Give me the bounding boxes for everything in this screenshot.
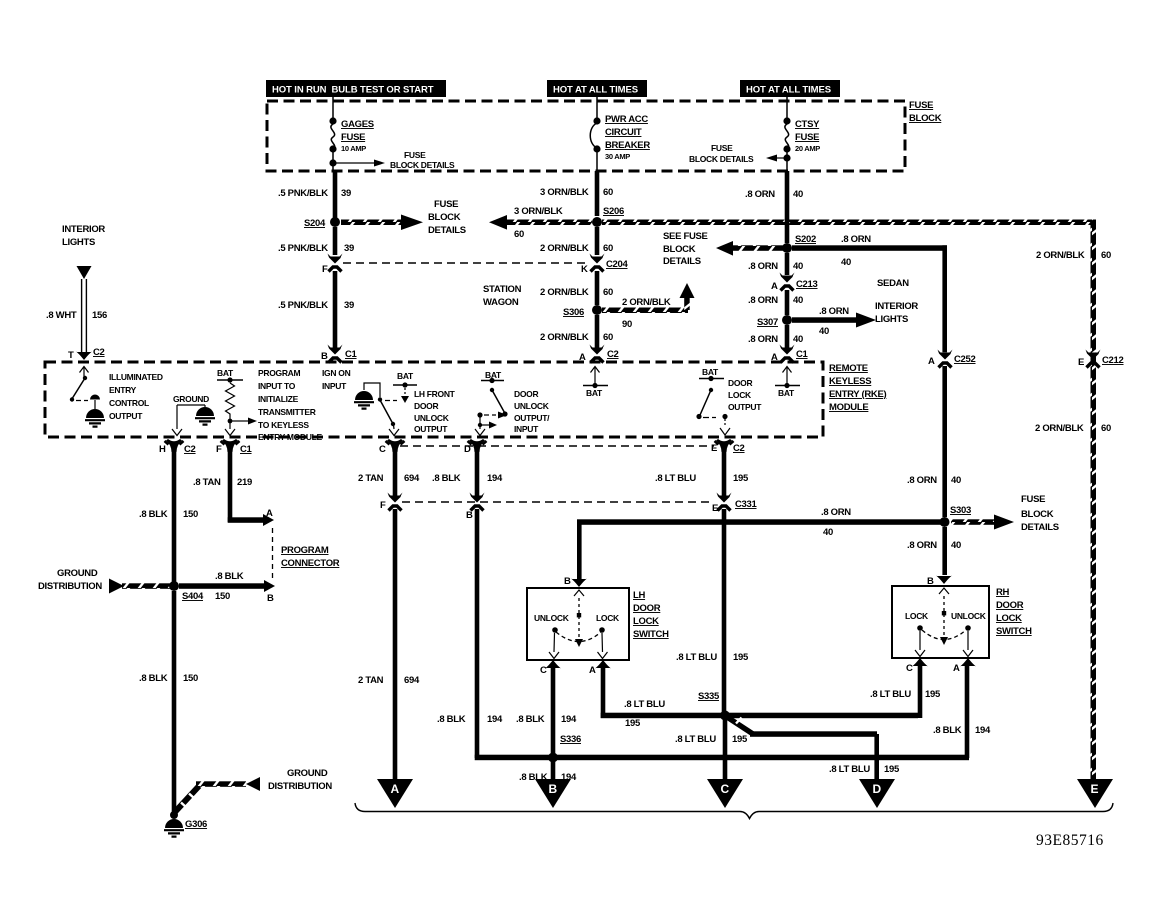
hatched wire right vertical run to terminal E bbox=[1091, 220, 1097, 780]
lh switch pin A bbox=[589, 660, 611, 676]
fuse block label bbox=[909, 100, 942, 124]
door unlock output/input switch bbox=[475, 370, 508, 436]
svg-text:BLOCK: BLOCK bbox=[1021, 509, 1054, 520]
svg-text:HOT AT ALL TIMES: HOT AT ALL TIMES bbox=[746, 85, 831, 96]
svg-text:BLOCK: BLOCK bbox=[663, 244, 696, 255]
svg-text:150: 150 bbox=[215, 591, 230, 602]
svg-text:39: 39 bbox=[344, 243, 354, 254]
label DOOR UNLOCK OUTPUT/ INPUT bbox=[514, 389, 550, 434]
hatched diagonal S335 to terminal D run bbox=[727, 717, 900, 779]
svg-text:C204: C204 bbox=[606, 259, 629, 270]
circuit breaker PWR ACC 30 AMP bbox=[590, 114, 650, 171]
wire .8 LT BLU 195 pin E to connector E C331 bbox=[655, 450, 749, 496]
wire from HOT AT ALL TIMES feed to circuit breaker bbox=[596, 96, 598, 118]
svg-text:2 ORN/BLK: 2 ORN/BLK bbox=[540, 287, 589, 298]
label DOOR LOCK OUTPUT bbox=[728, 378, 762, 412]
svg-text:2 ORN/BLK: 2 ORN/BLK bbox=[622, 297, 671, 308]
svg-text:B: B bbox=[466, 510, 473, 521]
label RH DOOR LOCK SWITCH bbox=[996, 587, 1032, 637]
connector K C204 bbox=[581, 254, 629, 276]
svg-text:LOCK: LOCK bbox=[728, 390, 752, 400]
svg-text:60: 60 bbox=[514, 229, 524, 240]
ctsy fuse tap to fuse block details bbox=[689, 143, 791, 164]
svg-text:.8 ORN: .8 ORN bbox=[841, 234, 871, 245]
svg-text:DETAILS: DETAILS bbox=[663, 256, 701, 267]
wire .8 BLK 150 pin H to S404 bbox=[139, 450, 198, 584]
svg-text:TRANSMITTER: TRANSMITTER bbox=[258, 407, 316, 417]
wire .8 BLK 150 S404 to G306 bbox=[139, 591, 198, 815]
svg-text:39: 39 bbox=[344, 300, 354, 311]
svg-text:A: A bbox=[771, 281, 778, 292]
RKE module dashed box bbox=[45, 362, 823, 437]
wire from HOT AT ALL TIMES feed to ctsy fuse bbox=[786, 96, 788, 118]
wire .8 BLK 194 S336 run to rh switch pin A bbox=[553, 666, 991, 760]
svg-text:BAT: BAT bbox=[217, 368, 234, 378]
wire .8 ORN 40 C252 to S303 bbox=[907, 366, 961, 517]
wire .8 ORN 40 connector A to S307 bbox=[748, 290, 803, 315]
node S303 bbox=[940, 505, 972, 527]
svg-text:C2: C2 bbox=[93, 347, 105, 358]
ground output to pin H bbox=[172, 394, 215, 436]
connector B on .8 BLK wire bbox=[466, 493, 485, 522]
svg-text:MODULE: MODULE bbox=[829, 402, 868, 413]
svg-text:CTSY: CTSY bbox=[795, 119, 820, 130]
svg-text:C: C bbox=[540, 665, 547, 676]
svg-text:FUSE: FUSE bbox=[795, 132, 819, 143]
wire 2 TAN 694 connector F to terminal A bbox=[358, 509, 420, 779]
ground G306 bbox=[164, 811, 207, 837]
svg-text:GROUND: GROUND bbox=[287, 768, 328, 779]
svg-text:39: 39 bbox=[341, 188, 351, 199]
svg-text:C212: C212 bbox=[1102, 355, 1124, 366]
RH door lock switch box bbox=[892, 586, 989, 658]
svg-text:H: H bbox=[159, 444, 166, 455]
label STATION WAGON bbox=[483, 284, 522, 308]
label LH FRONT DOOR UNLOCK OUTPUT bbox=[414, 389, 456, 434]
node S335 bbox=[698, 691, 730, 721]
svg-text:694: 694 bbox=[404, 473, 420, 484]
svg-text:CONTROL: CONTROL bbox=[109, 398, 149, 408]
svg-text:DISTRIBUTION: DISTRIBUTION bbox=[38, 581, 102, 592]
label REMOTE KEYLESS ENTRY (RKE) MODULE bbox=[829, 363, 887, 413]
svg-text:40: 40 bbox=[819, 326, 829, 337]
node S204 bbox=[304, 217, 340, 229]
svg-text:F: F bbox=[216, 444, 222, 455]
svg-text:FUSE: FUSE bbox=[341, 132, 365, 143]
terminal D bbox=[859, 779, 895, 808]
wire 2 ORN/BLK 60 S306 to RKE module pin A bbox=[540, 315, 613, 348]
svg-text:F: F bbox=[322, 264, 328, 275]
wire .8 ORN 40 S303 to RH door lock switch pin B bbox=[907, 527, 961, 575]
connector F on 2 TAN wire bbox=[380, 493, 403, 512]
svg-text:A: A bbox=[266, 508, 273, 519]
svg-text:BLOCK DETAILS: BLOCK DETAILS bbox=[390, 160, 455, 170]
svg-text:UNLOCK: UNLOCK bbox=[951, 611, 987, 621]
wire .5 PNK/BLK 39 connector F to RKE module pin B bbox=[278, 271, 354, 348]
wire .8 TAN 219 pin F to program connector pin A bbox=[193, 450, 274, 526]
pin D at module bottom bbox=[464, 439, 487, 455]
wire 2 ORN/BLK 60 connector K to S306 bbox=[540, 271, 613, 305]
svg-text:195: 195 bbox=[733, 652, 749, 663]
bat feed at pin A C2 bbox=[583, 367, 608, 399]
hatched branch to ground distribution (lower) bbox=[174, 777, 260, 813]
svg-text:.5 PNK/BLK: .5 PNK/BLK bbox=[278, 243, 328, 254]
svg-text:DOOR: DOOR bbox=[996, 600, 1024, 611]
svg-text:ENTRY MODULE: ENTRY MODULE bbox=[258, 432, 323, 442]
svg-text:60: 60 bbox=[603, 332, 613, 343]
svg-text:194: 194 bbox=[487, 714, 503, 725]
svg-text:195: 195 bbox=[884, 764, 900, 775]
svg-text:B: B bbox=[549, 782, 558, 796]
wire .8 LT BLU 195 S335 to rh door lock switch pin C bbox=[728, 666, 941, 718]
svg-text:.8 LT BLU: .8 LT BLU bbox=[675, 734, 716, 745]
wire .8 LT BLU 195 connector E to S335 bbox=[676, 509, 749, 712]
pin B C1 at RKE module top bbox=[321, 345, 358, 363]
svg-text:.8 BLK: .8 BLK bbox=[215, 571, 244, 582]
svg-text:B: B bbox=[267, 593, 274, 604]
svg-text:.8 ORN: .8 ORN bbox=[907, 475, 937, 486]
svg-text:DETAILS: DETAILS bbox=[428, 225, 466, 236]
terminal B bbox=[535, 779, 571, 808]
illuminated entry control output switch bbox=[70, 367, 105, 427]
svg-text:C1: C1 bbox=[796, 349, 809, 360]
svg-text:S303: S303 bbox=[950, 505, 971, 516]
wire .8 LT BLU 195 lh pin A to S335 bbox=[601, 666, 723, 729]
lh door lock switch pin B bbox=[564, 576, 587, 587]
node S202 bbox=[782, 234, 816, 253]
svg-text:3 ORN/BLK: 3 ORN/BLK bbox=[514, 206, 563, 217]
svg-text:C2: C2 bbox=[607, 349, 619, 360]
svg-text:PROGRAM: PROGRAM bbox=[281, 545, 329, 556]
svg-text:.8 LT BLU: .8 LT BLU bbox=[655, 473, 696, 484]
svg-text:BAT: BAT bbox=[702, 367, 719, 377]
svg-text:2 ORN/BLK: 2 ORN/BLK bbox=[540, 243, 589, 254]
node S404 bbox=[169, 581, 204, 602]
svg-text:2 ORN/BLK: 2 ORN/BLK bbox=[1036, 250, 1085, 261]
svg-text:LH: LH bbox=[633, 590, 646, 601]
svg-text:GROUND: GROUND bbox=[173, 394, 209, 404]
svg-text:CONNECTOR: CONNECTOR bbox=[281, 558, 340, 569]
svg-text:2 ORN/BLK: 2 ORN/BLK bbox=[1035, 423, 1084, 434]
svg-text:40: 40 bbox=[793, 189, 803, 200]
svg-text:S336: S336 bbox=[560, 734, 581, 745]
wire .8 WHT 156 interior lights to T C2 (double line) bbox=[46, 279, 107, 353]
svg-text:10 AMP: 10 AMP bbox=[341, 144, 366, 153]
svg-text:194: 194 bbox=[561, 714, 577, 725]
svg-text:C252: C252 bbox=[954, 354, 976, 365]
svg-text:195: 195 bbox=[925, 689, 941, 700]
svg-text:REMOTE: REMOTE bbox=[829, 363, 868, 374]
svg-text:.5 PNK/BLK: .5 PNK/BLK bbox=[278, 300, 328, 311]
connector A C213 bbox=[771, 273, 818, 293]
fuse CTSY 20 AMP bbox=[783, 117, 820, 171]
connector F (C204 line) on PNK/BLK wire bbox=[322, 254, 343, 276]
svg-text:UNLOCK: UNLOCK bbox=[514, 401, 550, 411]
node S307 bbox=[757, 315, 792, 328]
svg-text:LOCK: LOCK bbox=[596, 613, 620, 623]
wire .8 ORN 40 branch S202 to sedan run (right then down) bbox=[792, 234, 947, 352]
label SEE FUSE BLOCK DETAILS bbox=[663, 231, 708, 267]
gages fuse tap to fuse block details bbox=[329, 150, 455, 170]
svg-text:2 TAN: 2 TAN bbox=[358, 675, 384, 686]
svg-text:195: 195 bbox=[625, 718, 641, 729]
feed label HOT IN RUN BULB TEST OR START bbox=[266, 80, 446, 97]
wire 2 TAN 694 pin C to connector F bbox=[358, 450, 420, 496]
pin C at module bottom bbox=[379, 439, 405, 455]
label GROUND DISTRIBUTION (upper) bbox=[38, 568, 102, 592]
svg-text:INPUT: INPUT bbox=[514, 424, 539, 434]
svg-text:.8 TAN: .8 TAN bbox=[193, 477, 221, 488]
rh switch pin C bbox=[906, 658, 928, 674]
svg-text:C: C bbox=[721, 782, 730, 796]
connector E C331 bbox=[712, 493, 758, 515]
svg-text:B: B bbox=[564, 576, 571, 587]
svg-text:.5 PNK/BLK: .5 PNK/BLK bbox=[278, 188, 328, 199]
wire 3 ORN/BLK 60 breaker to S206 bbox=[540, 171, 613, 216]
wire .8 BLK 194 pin D to connector B bbox=[432, 450, 503, 496]
svg-text:194: 194 bbox=[487, 473, 503, 484]
svg-text:A: A bbox=[589, 665, 596, 676]
svg-text:BLOCK DETAILS: BLOCK DETAILS bbox=[689, 154, 754, 164]
svg-text:E: E bbox=[1091, 782, 1099, 796]
svg-text:BLOCK: BLOCK bbox=[428, 212, 461, 223]
pin A C2 at RKE module top bbox=[579, 345, 619, 364]
pin H C2 at module bottom bbox=[159, 439, 196, 455]
svg-text:LIGHTS: LIGHTS bbox=[62, 237, 95, 248]
svg-text:S202: S202 bbox=[795, 234, 816, 245]
svg-text:KEYLESS: KEYLESS bbox=[829, 376, 871, 387]
label LH DOOR LOCK SWITCH bbox=[633, 590, 669, 640]
svg-text:C2: C2 bbox=[733, 443, 745, 454]
svg-text:ENTRY: ENTRY bbox=[109, 385, 137, 395]
svg-text:FUSE: FUSE bbox=[711, 143, 733, 153]
svg-text:DOOR: DOOR bbox=[514, 389, 538, 399]
svg-text:60: 60 bbox=[603, 287, 613, 298]
svg-text:S307: S307 bbox=[757, 317, 778, 328]
svg-text:C1: C1 bbox=[240, 444, 253, 455]
svg-text:INTERIOR: INTERIOR bbox=[62, 224, 105, 235]
svg-text:.8 ORN: .8 ORN bbox=[907, 540, 937, 551]
svg-text:40: 40 bbox=[951, 540, 961, 551]
svg-text:.8 BLK: .8 BLK bbox=[437, 714, 466, 725]
svg-text:UNLOCK: UNLOCK bbox=[414, 413, 450, 423]
svg-text:T: T bbox=[68, 350, 74, 361]
svg-text:LOCK: LOCK bbox=[905, 611, 929, 621]
svg-text:INPUT: INPUT bbox=[322, 381, 347, 391]
dashed connector line C204 bbox=[343, 262, 589, 264]
rh switch pin A bbox=[953, 658, 976, 674]
svg-text:C1: C1 bbox=[345, 349, 358, 360]
fuse GAGES 10 AMP bbox=[329, 117, 373, 171]
svg-text:.8 WHT: .8 WHT bbox=[46, 310, 77, 321]
terminal E bbox=[1077, 779, 1113, 808]
svg-text:FUSE: FUSE bbox=[909, 100, 933, 111]
svg-text:.8 ORN: .8 ORN bbox=[819, 306, 849, 317]
svg-text:PWR ACC: PWR ACC bbox=[605, 114, 648, 125]
svg-text:PROGRAM: PROGRAM bbox=[258, 368, 301, 378]
svg-text:LH FRONT: LH FRONT bbox=[414, 389, 456, 399]
svg-text:DOOR: DOOR bbox=[633, 603, 661, 614]
terminal A bbox=[377, 779, 413, 808]
wire .8 BLK 150 S404 to program connector pin B bbox=[179, 571, 275, 604]
svg-text:C: C bbox=[379, 444, 386, 455]
pin E C2 at module bottom bbox=[711, 439, 745, 454]
hatched arrow S306 to station wagon interior lights 2 ORN/BLK 90 bbox=[602, 283, 695, 330]
svg-text:.8 BLK: .8 BLK bbox=[139, 673, 168, 684]
solid arrow S307 to sedan interior lights .8 ORN 40 bbox=[792, 301, 918, 337]
svg-text:LOCK: LOCK bbox=[996, 613, 1022, 624]
feed label HOT AT ALL TIMES (CTSY) bbox=[740, 80, 840, 97]
rh door lock switch pin B bbox=[927, 576, 952, 588]
hatched arrow from ground distribution to S404 bbox=[109, 579, 170, 594]
hatched arrow S204 to fuse block details bbox=[341, 199, 466, 236]
svg-text:BREAKER: BREAKER bbox=[605, 140, 650, 151]
svg-text:F: F bbox=[380, 500, 386, 511]
pin F C1 at module bottom bbox=[216, 439, 253, 455]
svg-text:.8 ORN: .8 ORN bbox=[745, 189, 775, 200]
svg-text:S206: S206 bbox=[603, 206, 624, 217]
node S336 bbox=[548, 734, 581, 763]
terminal C bbox=[707, 779, 743, 808]
feed label HOT AT ALL TIMES (PWR ACC) bbox=[547, 80, 647, 97]
pin A C1 at RKE module top bbox=[771, 345, 809, 364]
svg-text:.8 ORN: .8 ORN bbox=[748, 295, 778, 306]
label PROGRAM INPUT TO INITIALIZE TRANSMITTER TO KEYLESS ENTRY MODULE bbox=[258, 368, 323, 442]
svg-text:S404: S404 bbox=[182, 591, 204, 602]
svg-text:150: 150 bbox=[183, 509, 198, 520]
svg-text:BAT: BAT bbox=[778, 388, 795, 398]
svg-text:UNLOCK: UNLOCK bbox=[534, 613, 570, 623]
wire .8 BLK 194 connector B to S336 corner bbox=[437, 509, 553, 760]
arrow from interior lights bbox=[77, 266, 92, 279]
svg-text:60: 60 bbox=[603, 243, 613, 254]
wire from HOT IN RUN feed to gages fuse bbox=[332, 96, 334, 118]
svg-text:40: 40 bbox=[951, 475, 961, 486]
svg-text:FUSE: FUSE bbox=[1021, 494, 1045, 505]
program input resistor to pin F bbox=[217, 368, 257, 436]
svg-text:40: 40 bbox=[793, 261, 803, 272]
svg-text:TO KEYLESS: TO KEYLESS bbox=[258, 420, 309, 430]
svg-text:SEE FUSE: SEE FUSE bbox=[663, 231, 708, 242]
hatched arrow S206 to fuse block details (left) bbox=[489, 206, 592, 240]
svg-text:20 AMP: 20 AMP bbox=[795, 144, 820, 153]
node S306 bbox=[563, 305, 602, 318]
svg-text:3 ORN/BLK: 3 ORN/BLK bbox=[540, 187, 589, 198]
svg-text:195: 195 bbox=[732, 734, 748, 745]
ign on input arrow at pin B bbox=[322, 368, 351, 391]
connector E C212 bbox=[1078, 350, 1124, 369]
svg-text:HOT IN RUN BULB TEST OR START: HOT IN RUN BULB TEST OR START bbox=[272, 85, 434, 96]
svg-text:.8 BLK: .8 BLK bbox=[139, 509, 168, 520]
svg-text:195: 195 bbox=[733, 473, 749, 484]
svg-text:156: 156 bbox=[92, 310, 107, 321]
svg-text:SEDAN: SEDAN bbox=[877, 278, 909, 289]
svg-text:.8 ORN: .8 ORN bbox=[821, 507, 851, 518]
svg-text:LOCK: LOCK bbox=[633, 616, 659, 627]
svg-text:SWITCH: SWITCH bbox=[633, 629, 669, 640]
svg-text:OUTPUT: OUTPUT bbox=[414, 424, 448, 434]
wire .8 LT BLU 195 S335 to terminal C bbox=[675, 719, 748, 779]
svg-text:DISTRIBUTION: DISTRIBUTION bbox=[268, 781, 332, 792]
wire .8 BLK 194 S336 to terminal B bbox=[519, 761, 577, 783]
svg-text:A: A bbox=[928, 356, 935, 367]
svg-text:C331: C331 bbox=[735, 499, 758, 510]
svg-text:E: E bbox=[711, 443, 717, 454]
svg-text:S204: S204 bbox=[304, 218, 326, 229]
svg-text:INPUT TO: INPUT TO bbox=[258, 381, 296, 391]
svg-text:40: 40 bbox=[823, 527, 833, 538]
dashed connector line C331 bbox=[402, 501, 714, 503]
svg-text:ENTRY (RKE): ENTRY (RKE) bbox=[829, 389, 887, 400]
svg-text:G306: G306 bbox=[185, 819, 207, 830]
svg-text:219: 219 bbox=[237, 477, 252, 488]
svg-text:.8 ORN: .8 ORN bbox=[748, 334, 778, 345]
svg-text:40: 40 bbox=[793, 334, 803, 345]
svg-text:.8 BLK: .8 BLK bbox=[933, 725, 962, 736]
svg-text:40: 40 bbox=[841, 257, 851, 268]
program connector dashed link bbox=[272, 528, 274, 580]
svg-text:STATION: STATION bbox=[483, 284, 522, 295]
svg-text:.8 LT BLU: .8 LT BLU bbox=[829, 764, 870, 775]
label INTERIOR LIGHTS (left) bbox=[62, 224, 105, 248]
node S206 bbox=[592, 206, 624, 227]
svg-text:S335: S335 bbox=[698, 691, 720, 702]
fuse block dashed box bbox=[267, 101, 905, 171]
svg-text:K: K bbox=[581, 264, 588, 275]
svg-text:A: A bbox=[391, 782, 400, 796]
svg-text:A: A bbox=[953, 663, 960, 674]
svg-text:60: 60 bbox=[1101, 250, 1111, 261]
svg-text:60: 60 bbox=[603, 187, 613, 198]
pin T C2 at RKE module top bbox=[68, 347, 105, 361]
svg-text:E: E bbox=[1078, 357, 1084, 368]
svg-text:.8 LT BLU: .8 LT BLU bbox=[870, 689, 911, 700]
svg-text:.8 BLK: .8 BLK bbox=[516, 714, 545, 725]
svg-text:C2: C2 bbox=[184, 444, 196, 455]
svg-text:B: B bbox=[321, 351, 328, 362]
svg-text:RH: RH bbox=[996, 587, 1010, 598]
svg-text:DOOR: DOOR bbox=[414, 401, 438, 411]
svg-text:BLOCK: BLOCK bbox=[909, 113, 942, 124]
svg-text:ILLUMINATED: ILLUMINATED bbox=[109, 372, 163, 382]
wire .8 ORN 40 ctsy fuse to S202 bbox=[745, 171, 803, 243]
wire .8 ORN 40 S202 down to connector A C213 bbox=[748, 253, 803, 275]
bat feed at pin A C1 bbox=[775, 367, 800, 399]
svg-text:SWITCH: SWITCH bbox=[996, 626, 1032, 637]
svg-text:C213: C213 bbox=[796, 279, 818, 290]
wire 2 ORN/BLK 60 S206 to connector K bbox=[540, 227, 613, 255]
svg-text:FUSE: FUSE bbox=[404, 150, 426, 160]
wire .5 PNK/BLK 39 S204 to connector F bbox=[278, 227, 354, 255]
wire .8 ORN 40 lh door lock switch pin B run bbox=[577, 507, 945, 582]
svg-text:30 AMP: 30 AMP bbox=[605, 152, 630, 161]
svg-text:.8 ORN: .8 ORN bbox=[748, 261, 778, 272]
svg-text:93E85716: 93E85716 bbox=[1036, 832, 1104, 849]
label GROUND DISTRIBUTION (lower) bbox=[268, 768, 332, 792]
svg-text:INITIALIZE: INITIALIZE bbox=[258, 394, 299, 404]
svg-text:2 TAN: 2 TAN bbox=[358, 473, 384, 484]
svg-text:DETAILS: DETAILS bbox=[1021, 522, 1059, 533]
svg-text:60: 60 bbox=[1101, 423, 1111, 434]
svg-text:FUSE: FUSE bbox=[434, 199, 458, 210]
svg-text:194: 194 bbox=[975, 725, 991, 736]
svg-text:CIRCUIT: CIRCUIT bbox=[605, 127, 642, 138]
hatched arrow S202 to see fuse block details (left) bbox=[716, 241, 783, 256]
svg-text:150: 150 bbox=[183, 673, 198, 684]
lh switch pin C bbox=[540, 660, 561, 676]
rh switch internals bbox=[905, 588, 987, 657]
label ILLUMINATED ENTRY CONTROL OUTPUT bbox=[109, 372, 163, 421]
